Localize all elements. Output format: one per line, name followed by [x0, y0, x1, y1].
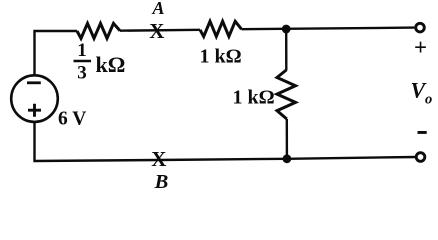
label: output voltage Vo — [411, 77, 433, 107]
svg-text:o: o — [425, 92, 432, 108]
resistor R2 (1 kOhm) — [200, 21, 242, 36]
wire: R2 to top-right terminal — [242, 28, 415, 30]
svg-text:1 kΩ: 1 kΩ — [233, 87, 275, 109]
terminal: bottom-right open circle — [416, 153, 425, 162]
wire: source top to top-left corner to R1 — [35, 31, 78, 76]
wire: node B to bottom junction to bottom-right terminal — [158, 157, 415, 160]
svg-text:1 kΩ: 1 kΩ — [200, 46, 242, 68]
svg-text:+: + — [414, 35, 427, 60]
svg-text:A: A — [151, 0, 164, 18]
svg-text:X: X — [149, 19, 164, 43]
svg-text:1: 1 — [77, 40, 87, 61]
terminal: top-right open circle — [416, 23, 425, 32]
svg-text:kΩ: kΩ — [96, 52, 126, 77]
svg-text:B: B — [154, 171, 169, 193]
resistor R1 (1/3 kOhm) — [77, 23, 120, 38]
wire: R3 to bottom junction — [286, 119, 289, 156]
wire: source bottom to bottom-left corner to node B — [35, 122, 159, 161]
junction node: top junction dot — [282, 25, 291, 34]
voltage source V1 (6 V) — [11, 75, 58, 122]
svg-text:3: 3 — [77, 63, 87, 84]
label: 1/3 kOhm value of R1 — [74, 40, 126, 84]
wire: R1 to node A to R2 — [120, 29, 200, 32]
label: minus polarity of Vo — [418, 131, 427, 134]
resistor R3 (1 kOhm, vertical) — [277, 70, 296, 119]
wire: top junction down to R3 — [285, 29, 287, 71]
svg-text:6 V: 6 V — [58, 109, 86, 130]
junction node: bottom junction dot — [283, 154, 292, 163]
